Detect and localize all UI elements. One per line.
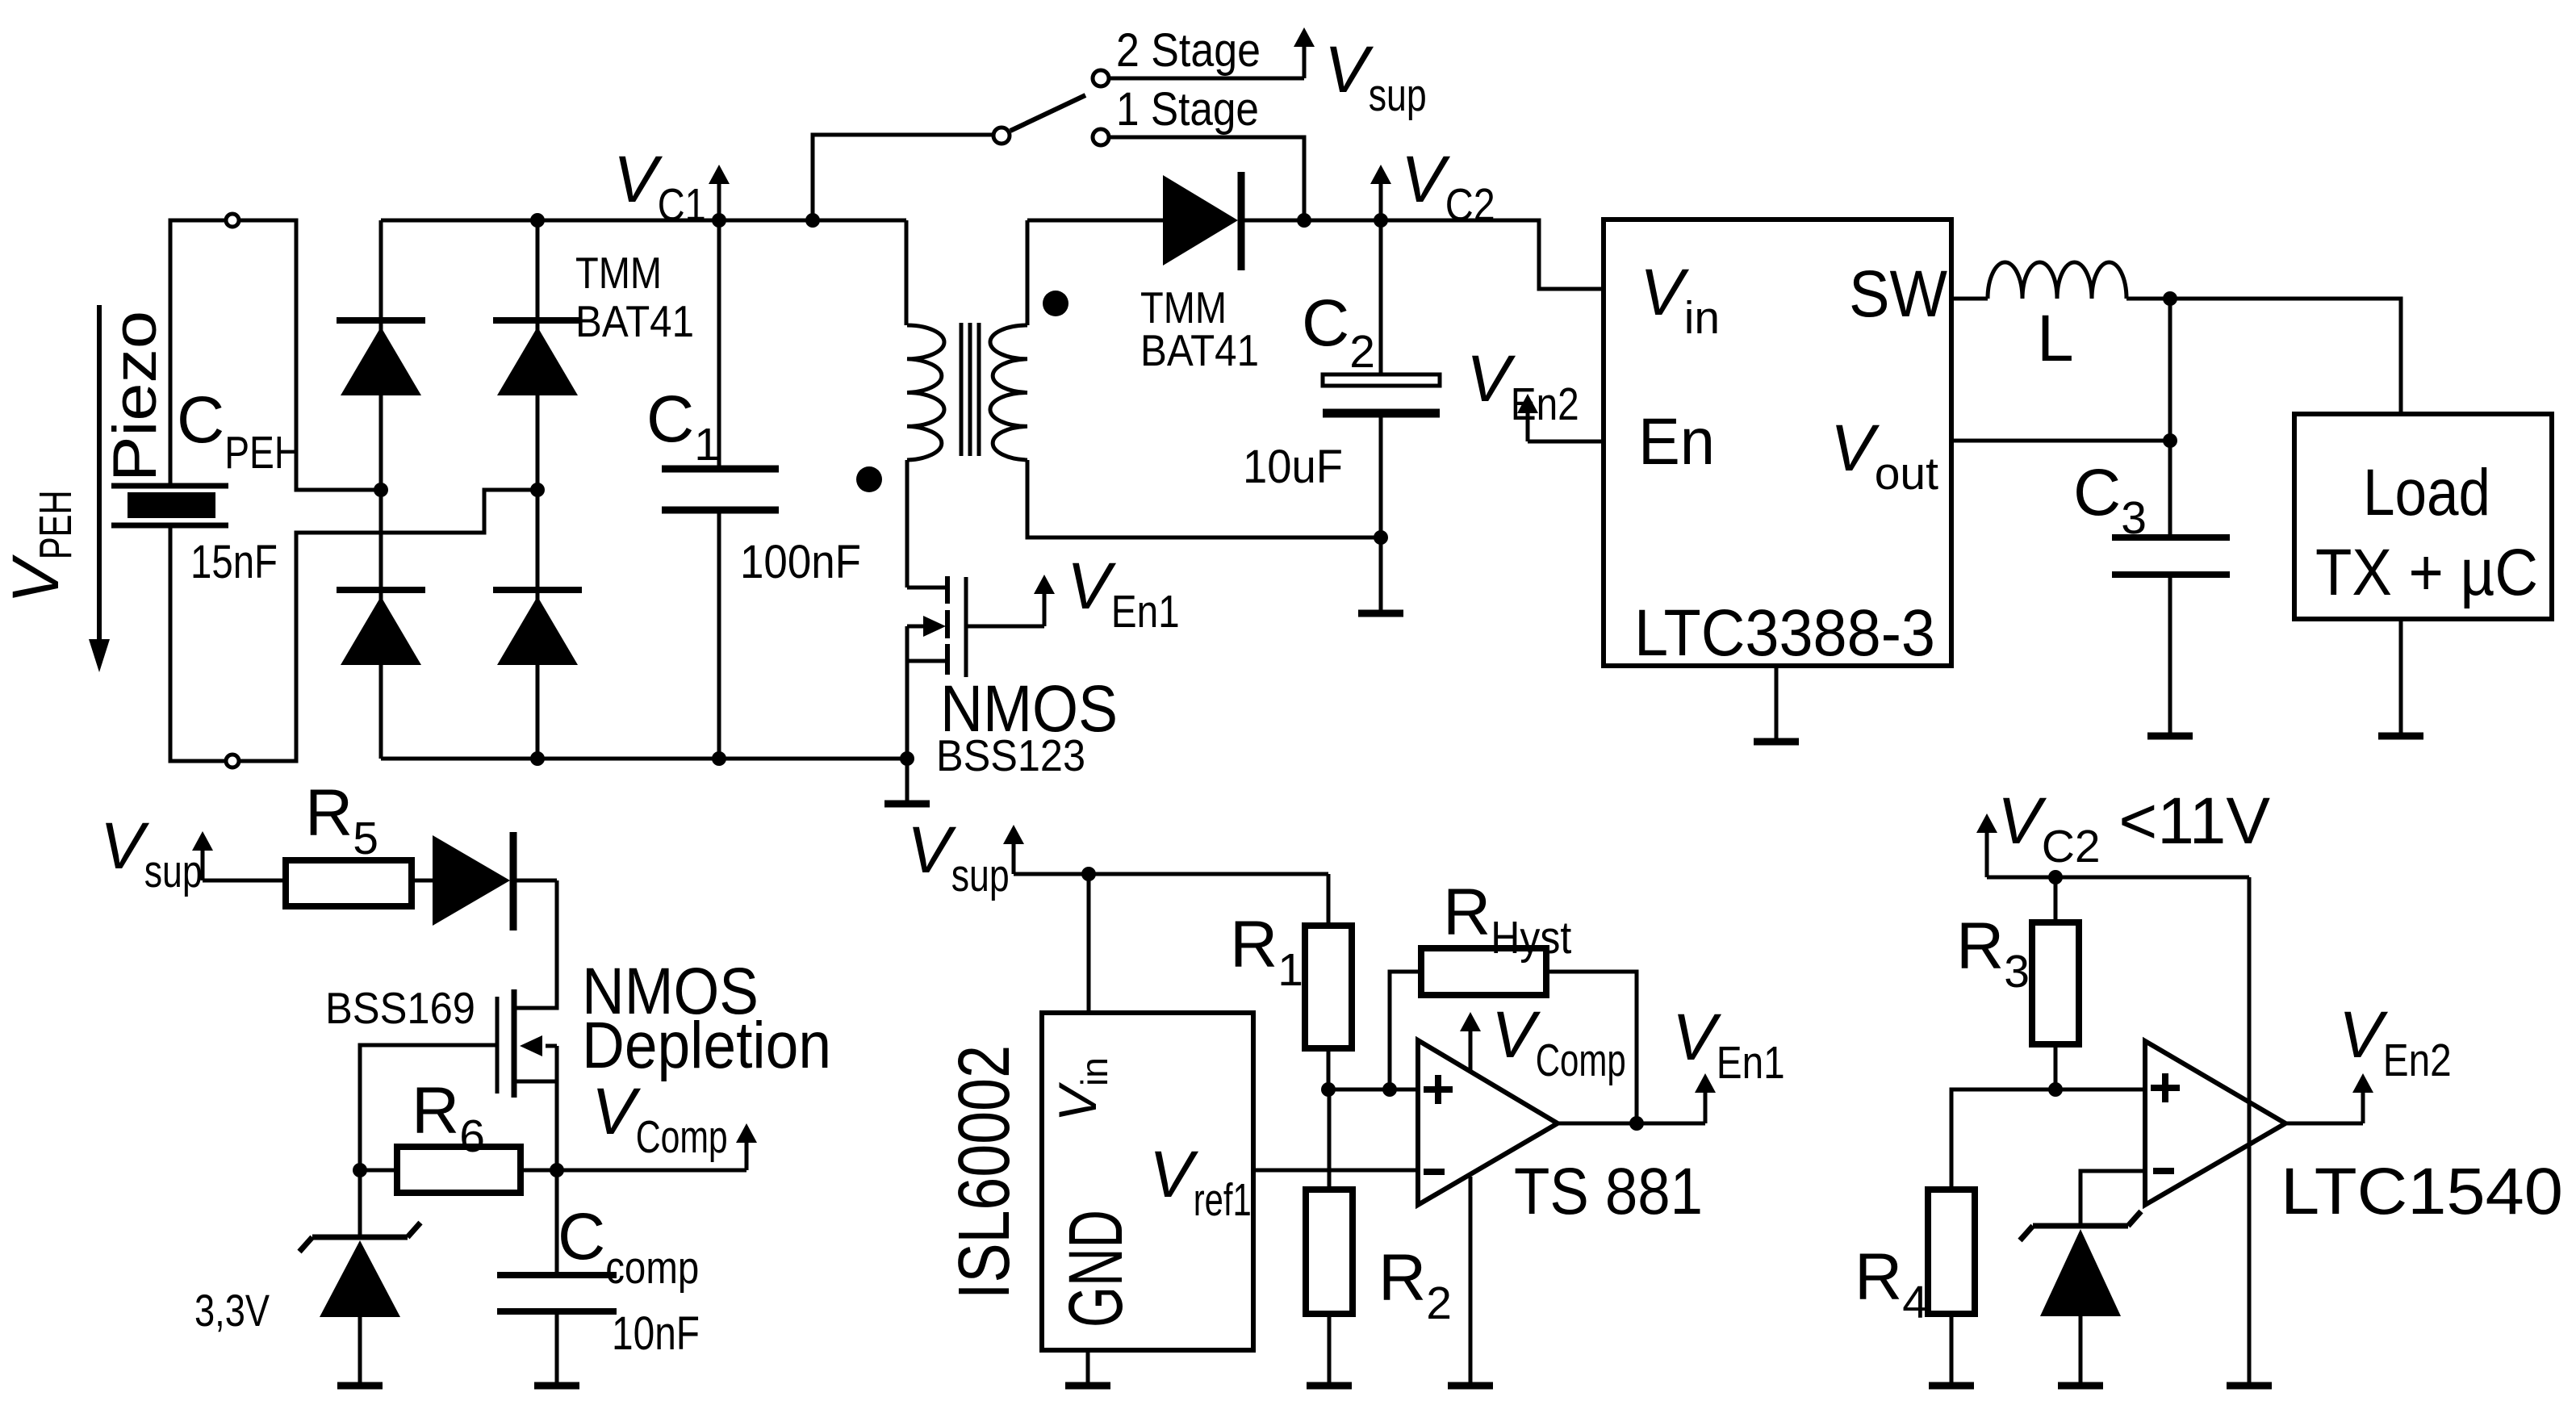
svg-text:10uF: 10uF [1243, 441, 1343, 493]
svg-text:Depletion: Depletion [582, 1009, 831, 1082]
svg-text:BAT41: BAT41 [1140, 325, 1259, 375]
svg-text:15nF: 15nF [190, 536, 278, 588]
svg-text:1 Stage: 1 Stage [1116, 83, 1259, 136]
svg-text:L: L [2037, 302, 2074, 375]
svg-text:SW: SW [1849, 257, 1948, 331]
svg-text:10nF: 10nF [612, 1307, 700, 1360]
svg-text:TMM: TMM [575, 248, 662, 298]
svg-text:TS 881: TS 881 [1514, 1155, 1703, 1228]
svg-text:BAT41: BAT41 [575, 296, 694, 346]
svg-text:BSS169: BSS169 [325, 983, 475, 1033]
svg-text:Load: Load [2363, 456, 2490, 529]
svg-text:LTC3388-3: LTC3388-3 [1634, 596, 1935, 670]
svg-text:TX + µC: TX + µC [2315, 536, 2538, 609]
svg-text:GND: GND [1053, 1210, 1139, 1328]
svg-text:Piezo: Piezo [101, 311, 169, 482]
svg-text:ISL60002: ISL60002 [944, 1045, 1025, 1299]
svg-text:100nF: 100nF [740, 536, 861, 588]
svg-text:2 Stage: 2 Stage [1116, 24, 1261, 77]
svg-text:LTC1540: LTC1540 [2281, 1155, 2563, 1228]
svg-text:En: En [1638, 405, 1715, 479]
svg-text:3,3V: 3,3V [194, 1285, 270, 1336]
svg-text:BSS123: BSS123 [936, 730, 1085, 780]
